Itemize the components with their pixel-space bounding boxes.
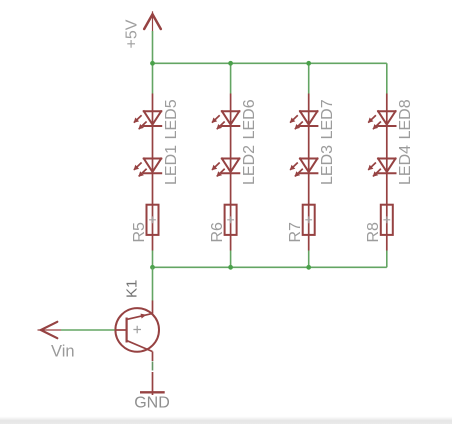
LED LED6 [212, 111, 240, 129]
LED LED5 [134, 111, 162, 129]
resistor R8 [381, 205, 393, 235]
junction bottom rail node 3 [306, 265, 311, 270]
svg-text:R7: R7 [287, 222, 304, 243]
svg-text:LED6: LED6 [241, 99, 258, 139]
junction bottom rail node 2 [228, 265, 233, 270]
wire top rail to LED8 anode [386, 63, 388, 93]
resistor R5 [147, 205, 159, 235]
pins LED5/LED1/R5 vertical red leads [152, 94, 154, 251]
wire top +5V rail [153, 62, 387, 64]
LED LED7 [290, 111, 318, 129]
pin K1 collector lead [152, 301, 154, 314]
svg-text:R5: R5 [131, 222, 148, 243]
wire R5 to bottom rail [152, 251, 154, 268]
wire top rail to LED6 anode [230, 63, 232, 93]
svg-text:LED5: LED5 [163, 99, 180, 139]
wire bottom rail [153, 266, 387, 268]
wire +5V to top rail [152, 31, 154, 63]
svg-text:K1: K1 [123, 280, 140, 298]
LED LED8 [368, 111, 396, 129]
svg-text:Vin: Vin [51, 343, 75, 361]
svg-text:GND: GND [134, 395, 170, 412]
LED LED4 [368, 159, 396, 177]
LED LED3 [290, 159, 318, 177]
wire R6 to bottom rail [230, 251, 232, 268]
svg-text:LED1: LED1 [163, 145, 180, 185]
pins LED7/LED3/R7 vertical red leads [308, 94, 310, 251]
wire K1 emitter to GND [152, 362, 154, 371]
transistor K1 [115, 308, 159, 352]
pins LED8/LED4/R8 vertical red leads [386, 94, 388, 251]
svg-text:LED7: LED7 [319, 99, 336, 139]
pins LED6/LED2/R6 vertical red leads [230, 94, 232, 251]
svg-text:LED8: LED8 [397, 99, 414, 139]
LED LED2 [212, 159, 240, 177]
resistor R6 [225, 205, 237, 235]
wire top rail to LED7 anode [308, 63, 310, 93]
svg-text:R8: R8 [365, 222, 382, 243]
wire Vin to K1 base [61, 329, 115, 331]
junction bottom rail node 1 [150, 265, 155, 270]
ground symbol [140, 372, 165, 395]
input arrow Vin [38, 322, 62, 338]
LED LED1 [134, 159, 162, 177]
svg-text:LED2: LED2 [241, 145, 258, 185]
wire top rail to LED5 anode [152, 63, 154, 93]
wire R7 to bottom rail [308, 251, 310, 268]
pin K1 emitter lead [152, 352, 154, 362]
junction top rail node 2 [228, 61, 233, 66]
wire R8 to bottom rail [386, 251, 388, 268]
junction top rail node 3 [306, 61, 311, 66]
svg-text:R6: R6 [209, 222, 226, 243]
junction top rail node 1 [150, 61, 155, 66]
wire bottom rail to K1 collector [152, 267, 154, 300]
resistor R7 [303, 205, 315, 235]
supply symbol +5V [144, 11, 161, 31]
svg-text:+5V: +5V [124, 19, 141, 48]
svg-text:LED3: LED3 [319, 145, 336, 185]
svg-text:LED4: LED4 [397, 145, 414, 185]
